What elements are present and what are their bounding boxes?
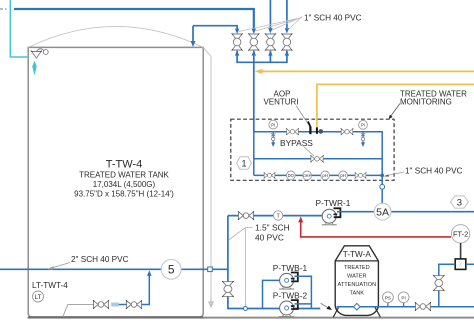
svg-text:PI: PI (271, 122, 275, 127)
fill valve 1 (232, 33, 243, 50)
ORP analyzer (303, 171, 312, 180)
pipe to tank manifold (thick) (14, 9, 254, 30)
suction valve (238, 211, 254, 220)
drain riser (119, 273, 150, 305)
drain valve 2 (126, 300, 142, 309)
svg-text:P-TWB-2: P-TWB-2 (273, 291, 308, 301)
suction header drop (228, 216, 320, 309)
svg-text:1" SCH 40 PVC: 1" SCH 40 PVC (405, 167, 463, 176)
P-TWB-2 discharge (295, 303, 312, 305)
tank inlet arrow (191, 41, 196, 47)
valve on monitoring line right (341, 128, 353, 135)
tank nozzle diamond (354, 303, 361, 310)
svg-text:MONITORING: MONITORING (400, 98, 452, 107)
temperature gauge T (273, 211, 282, 220)
svg-text:1: 1 (241, 159, 246, 169)
discharge valve (415, 302, 431, 311)
treated water tank T-TW-4 (28, 47, 203, 317)
leader 1.5" sch (229, 228, 253, 306)
svg-text:1.5" SCH: 1.5" SCH (255, 223, 290, 233)
svg-text:ORP: ORP (303, 174, 312, 178)
pH analyzer 2 (339, 171, 348, 180)
svg-text:TREATED WATER TANK: TREATED WATER TANK (79, 171, 169, 180)
flow element box (455, 259, 466, 270)
svg-text:T-TW-A: T-TW-A (343, 250, 372, 259)
svg-text:BYPASS: BYPASS (280, 138, 313, 148)
pump P-TWB-2 (279, 300, 298, 317)
PI gauge 1 (269, 120, 278, 129)
signal line (red) (301, 219, 451, 237)
drain cap (light blue) (111, 303, 119, 307)
riser valve 4 (286, 0, 288, 28)
PI-2 drain stub (361, 132, 365, 147)
fill valve 3 (265, 33, 276, 50)
flow meter piping (439, 264, 474, 307)
riser valve 3 (269, 0, 271, 29)
instrument line valve left (264, 172, 276, 178)
spray jet (cyan) (32, 61, 37, 76)
flex connector (321, 303, 332, 310)
flow transmitter FT-2 (451, 225, 469, 243)
svg-text:FT-2: FT-2 (453, 230, 468, 239)
fill valve 2 (248, 33, 259, 50)
leader monitoring box (389, 104, 400, 120)
svg-text:5A: 5A (376, 207, 389, 219)
junction dot (380, 174, 384, 178)
DO analyzer (286, 171, 295, 180)
pump P-TWB-1 (279, 273, 298, 290)
pump P-TWR-1 (322, 208, 341, 225)
drain gray pipe (63, 305, 94, 317)
tank T-TW-4 side edge (203, 47, 211, 298)
red arrow (298, 216, 303, 222)
leaders to 1" SCH 40 PVC (239, 17, 302, 32)
tank outlet 2" line (0, 268, 228, 270)
supply line (cyan) (10, 0, 29, 57)
svg-text:pH: pH (322, 173, 327, 178)
svg-text:pH: pH (340, 173, 345, 178)
node square (208, 267, 213, 272)
attenuation tank line (337, 306, 474, 308)
svg-text:PS: PS (385, 295, 391, 300)
ozone line 1 arrow (255, 69, 263, 74)
svg-text:P-TWR-1: P-TWR-1 (316, 198, 351, 208)
svg-text:VENTURI: VENTURI (263, 98, 298, 107)
leader AOP venturi (296, 106, 309, 125)
svg-text:3: 3 (457, 198, 462, 209)
monitoring dashed box (231, 119, 394, 180)
ozone line 1 (orange) (257, 70, 474, 72)
svg-text:ATTENUATION: ATTENUATION (337, 282, 376, 288)
pH analyzer 1 (321, 171, 330, 180)
pump suction line 5A (228, 215, 329, 217)
ozone line 2 (orange) (317, 84, 474, 128)
svg-text:5: 5 (168, 263, 175, 277)
svg-text:WATER: WATER (347, 274, 367, 280)
svg-text:2" SCH 40 PVC: 2" SCH 40 PVC (71, 255, 129, 264)
leader bypass (304, 147, 315, 157)
down arrows into valves (235, 28, 289, 34)
svg-text:LT: LT (35, 294, 42, 301)
PI gauge 2 (359, 120, 368, 129)
svg-text:P-TWB-1: P-TWB-1 (273, 263, 308, 273)
drain valve 1 (93, 300, 109, 309)
svg-text:TANK: TANK (350, 291, 365, 297)
riser from AOP skid (253, 62, 255, 131)
drain riser arrow (147, 270, 152, 276)
svg-text:93.75"D x 158.75"H (12-14'): 93.75"D x 158.75"H (12-14') (74, 190, 174, 199)
svg-text:LT-TWT-4: LT-TWT-4 (32, 281, 68, 290)
tank side edge down arrow (209, 298, 213, 307)
P-TWB-1 discharge (295, 276, 312, 308)
node hexagon 1 (237, 157, 252, 169)
svg-text:17,034L (4,500G): 17,034L (4,500G) (93, 180, 156, 189)
svg-text:DO: DO (288, 173, 295, 178)
up arrows into valves (235, 50, 289, 55)
svg-text:PI: PI (361, 123, 365, 128)
bypass valve (310, 155, 323, 162)
svg-text:1" SCH 40 PVC: 1" SCH 40 PVC (304, 14, 362, 23)
node circle on drop (380, 184, 385, 189)
pressure gauge PI (398, 292, 409, 307)
svg-text:40 PVC: 40 PVC (255, 233, 284, 243)
bypass line (254, 132, 382, 176)
leader 1" sch right (384, 172, 404, 177)
tank inlet drop (192, 26, 194, 42)
grade line (28, 317, 474, 319)
pipe valve1 branch (193, 26, 237, 30)
booster suction branch (263, 280, 280, 308)
PI-1 drain stub (271, 132, 275, 147)
continuation dashes (0, 8, 7, 10)
pump discharge line (337, 211, 474, 213)
tank T-TW-4 dome arc (28, 26, 203, 47)
monitoring top line (254, 132, 382, 204)
svg-text:PI: PI (401, 295, 405, 300)
instrument line (254, 174, 382, 176)
header isolation valve (222, 281, 234, 297)
flag circle 5A (374, 203, 391, 220)
attenuation tank T-TW-A (333, 246, 380, 317)
manifold (237, 51, 287, 63)
flow meter valve (433, 275, 444, 291)
svg-text:T-TW-4: T-TW-4 (106, 159, 142, 171)
spray nozzle (31, 49, 48, 58)
FT-2 signal drop (460, 243, 462, 259)
instrument line valve right (355, 172, 367, 178)
node hexagon 3 (450, 196, 468, 209)
svg-text:TREATED: TREATED (344, 265, 370, 271)
svg-text:T: T (277, 214, 280, 220)
fill valve 4 (281, 33, 292, 50)
tank bottom edge (28, 316, 203, 318)
valve on monitoring line left (286, 128, 298, 135)
AOP venturi injector (308, 122, 323, 135)
flag circle 5 (161, 259, 181, 279)
leader 2" sch (48, 263, 70, 270)
level transmitter LT (33, 291, 44, 302)
node on suction header (243, 307, 247, 311)
pressure switch PS (383, 292, 394, 307)
